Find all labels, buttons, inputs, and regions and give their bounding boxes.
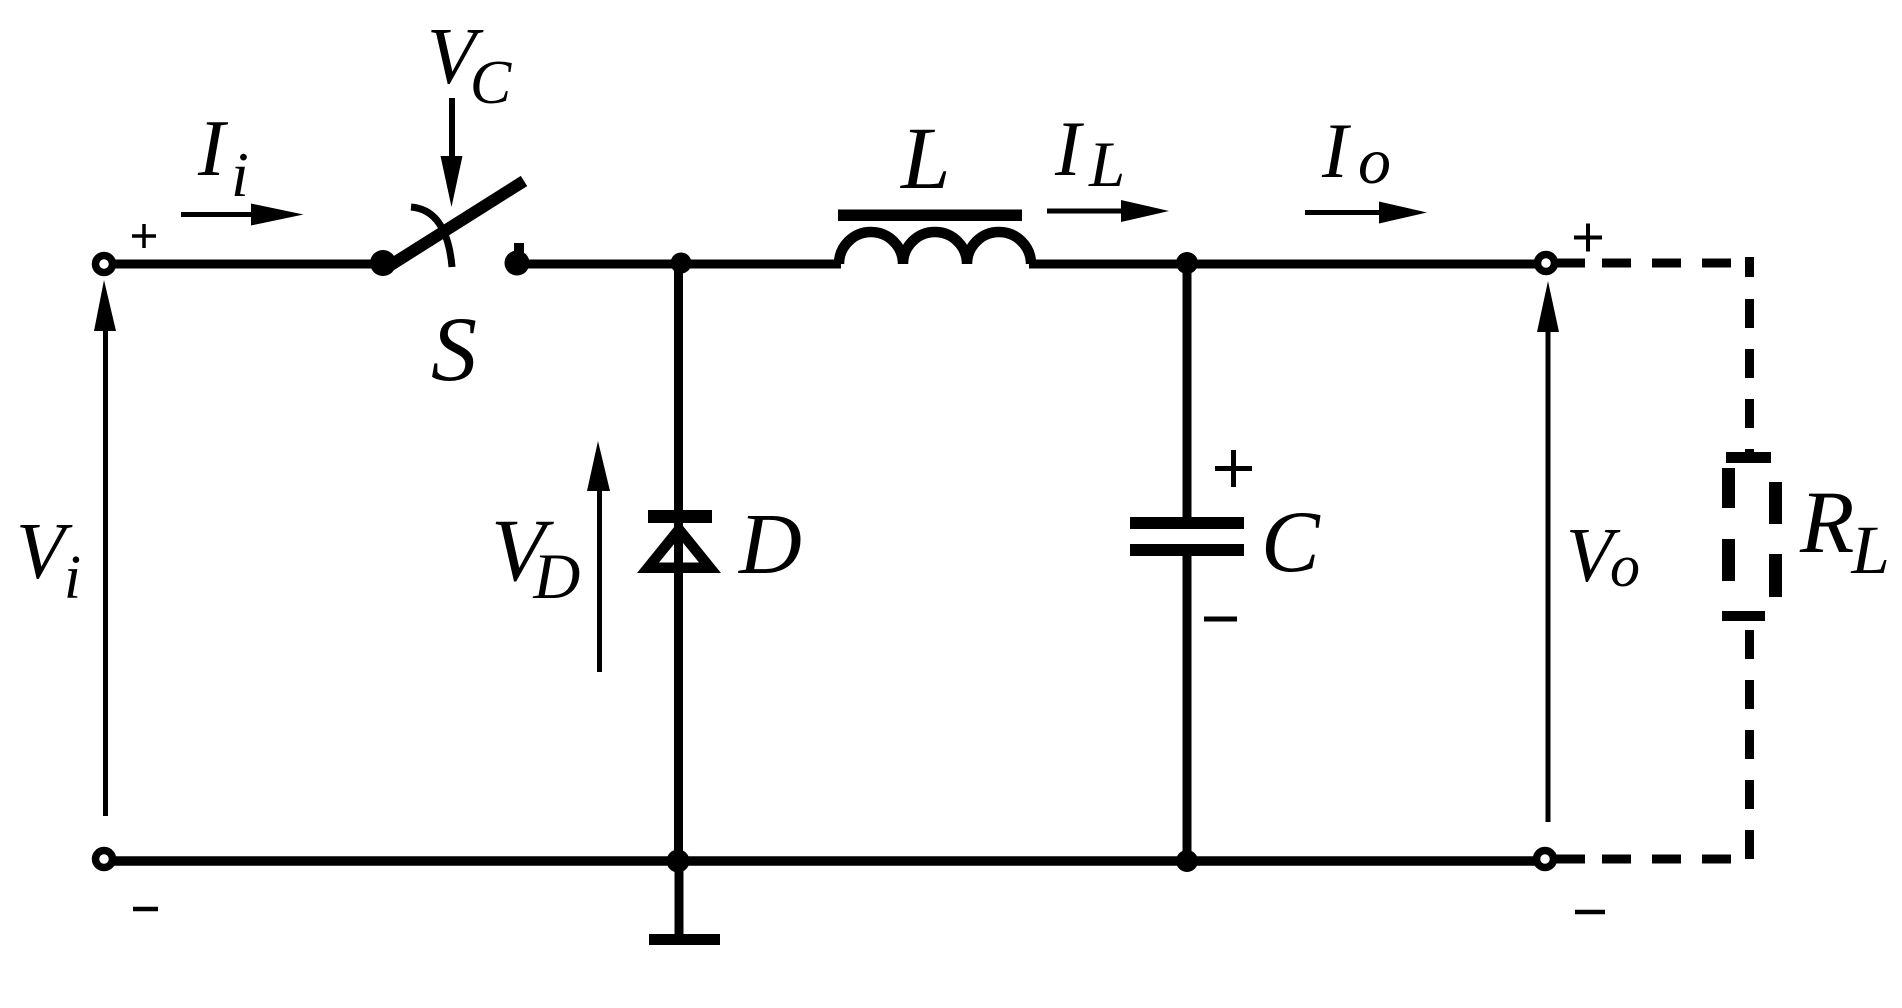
svg-text:C: C: [1261, 494, 1321, 591]
switch S pivot node: [370, 250, 396, 276]
node at capacitor branch (top): [1176, 252, 1198, 274]
plus label at capacitor: [1215, 450, 1252, 487]
minus label at output -: [1575, 910, 1605, 915]
input terminal + (open circle, top left): [96, 256, 113, 273]
arrow Ii (current direction): [181, 204, 304, 226]
dashed wire load branch upper (vertical): [1745, 257, 1754, 452]
capacitor C branch wire (lower): [1183, 555, 1192, 861]
output terminal + (open circle, top right): [1538, 255, 1555, 272]
minus label at capacitor: [1204, 617, 1237, 622]
output terminal - (open circle, bottom right): [1537, 851, 1554, 868]
arrow VC (pointing down at switch): [441, 98, 463, 207]
arrow Io (current direction): [1305, 202, 1427, 224]
wire top rail left (input + to switch pivot): [112, 260, 383, 269]
diode D branch wire (vertical): [674, 264, 683, 861]
dashed wire output + to load (horizontal): [1554, 259, 1585, 268]
switch S right contact node: [505, 251, 530, 276]
arrow Vo (voltage, pointing up): [1537, 281, 1559, 822]
switch S blade: [386, 181, 524, 268]
arrow Vi (voltage, pointing up): [94, 280, 116, 816]
capacitor C top plate: [1130, 517, 1244, 529]
switch S right contact stub: [514, 243, 524, 254]
inductor L core bar: [838, 210, 1022, 222]
resistor RL (dashed rectangle) top bar: [1726, 452, 1771, 463]
switch S travel arc: [411, 207, 452, 267]
plus label at output +: [1574, 224, 1602, 252]
wire top rail from cap node to output terminal: [1187, 260, 1537, 269]
diode D cathode bar: [648, 510, 712, 523]
wire bottom rail: [113, 856, 1537, 866]
node at capacitor branch (bottom): [1176, 850, 1198, 872]
node at diode branch (bottom): [667, 850, 690, 873]
dashed wire load to output - (horizontal): [1554, 855, 1585, 864]
svg-text:D: D: [738, 495, 802, 592]
dashed wire load branch lower (vertical): [1745, 621, 1754, 860]
inductor L windings: [839, 232, 1031, 264]
svg-text:S: S: [431, 298, 477, 400]
resistor RL left side dashes: [1722, 468, 1735, 508]
arrow IL (current direction): [1047, 200, 1169, 222]
ground bar: [649, 934, 720, 945]
ground stem: [675, 862, 684, 936]
arrow VD (voltage, pointing up): [587, 441, 610, 672]
plus label at input +: [132, 224, 156, 248]
wire top rail from switch to inductor: [517, 260, 841, 269]
input terminal - (open circle, bottom left): [96, 851, 113, 868]
svg-text:L: L: [899, 110, 951, 208]
minus label at input -: [133, 907, 158, 912]
capacitor C bottom plate: [1130, 544, 1244, 556]
resistor RL right side dashes: [1769, 482, 1782, 524]
wire top rail from inductor to cap node: [1029, 260, 1187, 269]
capacitor C branch wire (upper): [1183, 264, 1192, 518]
node at diode branch (top): [671, 253, 692, 274]
resistor RL bottom bar: [1722, 611, 1765, 621]
diode D triangle (anode, pointing up): [637, 521, 721, 573]
